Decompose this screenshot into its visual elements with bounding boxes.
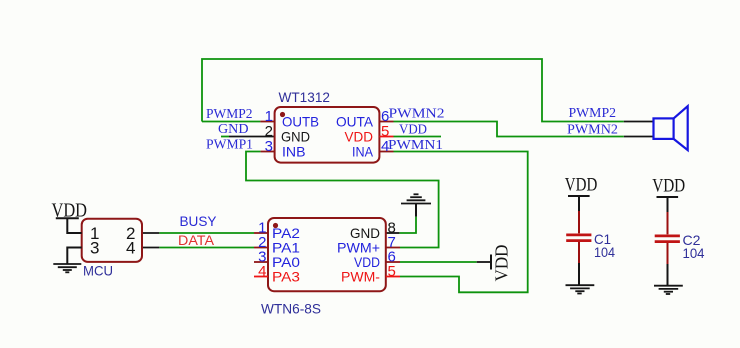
pin stub WT1312 pin 4 [379,151,393,153]
svg-text:104: 104 [683,245,705,261]
capacitor C2 [655,198,680,285]
pin stub WT1312 pin 1 [260,121,274,123]
wire net GND to WT1312 pin 2 [221,136,229,138]
pin stub WT1312 pin 5 [379,136,393,138]
ground inverted above WTN6 pin 8 [401,194,431,216]
power VDD rotated at WTN6 pin 6 [490,255,492,270]
wire net VDD from WT1312 pin 5 [394,136,442,138]
pin stub WTN6 pin 6 [386,261,400,263]
power VDD at C1 [568,195,590,197]
pin stub WT1312 pin 6 [379,121,393,123]
svg-text:VDD: VDD [345,129,374,145]
svg-text:OUTA: OUTA [336,114,374,130]
svg-text:PWMP2: PWMP2 [569,106,617,121]
wire WTN6 pin 6 to VDD [400,261,477,263]
pin stub WT1312 pin 3 [261,151,275,153]
wire WTN6 pin 8 to ground [399,217,416,233]
wire black stub WTN6 pin 8 [386,232,400,234]
svg-text:DATA: DATA [178,232,215,248]
power VDD at MCU [56,218,82,233]
pin stub WTN6 pin 7 [386,247,400,249]
svg-text:VDD: VDD [565,175,598,196]
svg-text:4: 4 [126,239,135,258]
svg-text:3: 3 [90,239,99,258]
wire PWMP2 to WT1312 pin 1 [202,121,260,123]
pin stub WTN6 pin 3 [254,261,268,263]
svg-text:104: 104 [594,244,615,260]
pin stub WTN6 pin 4 [254,276,268,278]
power VDD at C2 [657,196,679,198]
svg-text:PA3: PA3 [272,269,300,285]
svg-text:INB: INB [282,144,306,160]
wire net BUSY MCU pin2 to WTN6 pin 1 [159,232,254,234]
svg-text:3: 3 [265,138,273,155]
svg-text:VDD: VDD [492,245,512,282]
speaker LS [654,106,688,150]
svg-text:OUTB: OUTB [282,114,319,130]
mcu MCU body [82,219,142,262]
pin stub WTN6 pin 2 [254,247,268,249]
pin stub WTN6 pin 5 [386,276,400,278]
ground at C1 [566,285,595,293]
svg-text:PWMN2: PWMN2 [567,123,618,138]
wire net DATA MCU pin4 to WTN6 pin 2 [159,247,254,249]
svg-text:INA: INA [352,144,374,160]
wire net PWMN2 from pin 6 to speaker [394,122,624,137]
wire black stub VDD bar [477,261,491,263]
svg-text:GND: GND [281,129,310,145]
svg-text:MCU: MCU [83,263,113,279]
capacitor C1 [566,197,591,285]
svg-text:GND: GND [218,122,249,137]
wire net PWMP2 top loop [202,59,624,122]
svg-text:4: 4 [258,263,266,280]
wire black stub speaker bottom pin [624,136,654,138]
wire black stub MCU pin 2 [142,232,159,234]
chip WTN6-8S body [268,218,386,291]
svg-text:PWMN1: PWMN1 [388,138,443,153]
svg-text:PWM-: PWM- [341,269,380,285]
wire net PWMP1 from pin 3 to WTN6 pin 7 [246,152,439,248]
wire MCU pin3 to ground [67,248,81,264]
svg-text:5: 5 [388,263,396,280]
svg-text:PWMN2: PWMN2 [389,107,445,122]
svg-text:BUSY: BUSY [180,213,218,229]
chip WT1312 body [275,107,380,163]
svg-text:VDD: VDD [52,200,88,222]
svg-text:WT1312: WT1312 [279,89,331,105]
wire net PWMN1 from pin 4 to WTN6 pin 5 [394,152,528,293]
svg-text:PWMP1: PWMP1 [206,138,253,153]
svg-text:VDD: VDD [399,123,427,138]
ground at C2 [654,286,683,294]
wire black stub MCU pin 4 [142,247,159,249]
ground at MCU [53,264,81,272]
svg-text:PWMP2: PWMP2 [206,107,253,122]
svg-text:WTN6-8S: WTN6-8S [261,301,321,317]
pin stub WTN6 pin 1 [254,232,268,234]
wire black stub speaker top pin [624,121,654,123]
svg-text:VDD: VDD [652,176,685,197]
wire black GND segment pin 2 [229,136,275,138]
